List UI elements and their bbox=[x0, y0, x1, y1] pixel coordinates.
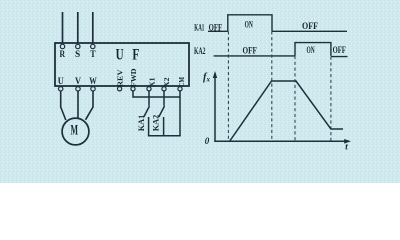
dashed guide t1 bbox=[227, 31, 229, 141]
svg-text:OFF: OFF bbox=[333, 46, 346, 56]
svg-text:KA2: KA2 bbox=[152, 115, 161, 132]
svg-text:CM: CM bbox=[177, 77, 186, 87]
svg-text:X2: X2 bbox=[162, 77, 171, 87]
svg-text:OFF: OFF bbox=[302, 22, 318, 32]
wire common bottom bbox=[148, 135, 181, 137]
contact KA1 blade bbox=[144, 106, 150, 117]
terminal T bbox=[90, 44, 95, 59]
wire W to motor bbox=[86, 91, 94, 120]
KA1 pulse ON bbox=[228, 15, 272, 32]
svg-text:F: F bbox=[132, 46, 139, 63]
svg-text:U: U bbox=[58, 76, 64, 86]
wire U to motor bbox=[61, 91, 66, 120]
svg-text:0: 0 bbox=[205, 136, 210, 146]
frequency curve bbox=[230, 81, 343, 141]
wire R supply bbox=[62, 12, 64, 43]
KA1 trace OFF segment bbox=[208, 30, 228, 32]
KA2 pulse ON bbox=[295, 43, 331, 56]
dashed guide t2 bbox=[271, 31, 273, 141]
terminal U bbox=[58, 76, 64, 91]
svg-text:S: S bbox=[75, 49, 80, 59]
terminal CM bbox=[177, 77, 186, 91]
wire X2 to contact KA2 bbox=[163, 91, 165, 106]
dashed guide t3 bbox=[294, 56, 296, 141]
svg-text:REV: REV bbox=[115, 69, 124, 87]
svg-text:V: V bbox=[75, 76, 81, 86]
svg-text:W: W bbox=[89, 76, 97, 86]
svg-text:KA1: KA1 bbox=[194, 23, 204, 33]
terminal W bbox=[89, 76, 97, 91]
contact KA2 blade bbox=[159, 106, 165, 117]
svg-text:OFF: OFF bbox=[243, 46, 258, 56]
wire CM down bbox=[179, 91, 181, 136]
svg-text:KA1: KA1 bbox=[137, 115, 146, 132]
KA1 trace OFF segment 2 bbox=[272, 30, 347, 32]
KA2 trace OFF segment bbox=[214, 55, 295, 57]
svg-text:U: U bbox=[116, 46, 124, 63]
wire T supply bbox=[92, 12, 94, 43]
terminal X1 bbox=[147, 77, 156, 91]
motor M bbox=[62, 118, 89, 145]
f axis bbox=[213, 71, 217, 141]
svg-text:R: R bbox=[60, 49, 66, 59]
wire FWD to CM bus bbox=[133, 91, 180, 97]
wire V to motor bbox=[77, 91, 79, 118]
KA2 trace OFF segment 2 bbox=[331, 56, 348, 58]
dashed guide t4 bbox=[330, 57, 332, 141]
svg-text:X1: X1 bbox=[147, 77, 156, 87]
svg-text:M: M bbox=[71, 123, 79, 139]
svg-text:ON: ON bbox=[307, 46, 315, 56]
inverter U1 box bbox=[55, 43, 189, 86]
terminal S bbox=[75, 44, 80, 59]
inverter label UF bbox=[116, 46, 140, 63]
svg-text:OFF: OFF bbox=[209, 23, 223, 33]
wire X1 to contact KA1 bbox=[148, 91, 150, 106]
terminal V bbox=[75, 76, 81, 91]
terminal FWD bbox=[129, 68, 138, 91]
svg-text:T: T bbox=[90, 49, 95, 59]
wire KA1 lower bbox=[148, 117, 150, 136]
terminal REV bbox=[115, 69, 124, 91]
svg-text:ON: ON bbox=[245, 20, 253, 30]
svg-text:KA2: KA2 bbox=[194, 47, 206, 57]
wire KA2 lower bbox=[163, 117, 165, 136]
t axis bbox=[214, 139, 351, 144]
terminal R bbox=[60, 44, 66, 59]
terminal X2 bbox=[162, 77, 171, 91]
svg-text:FWD: FWD bbox=[129, 68, 138, 87]
wire S supply bbox=[77, 12, 79, 43]
